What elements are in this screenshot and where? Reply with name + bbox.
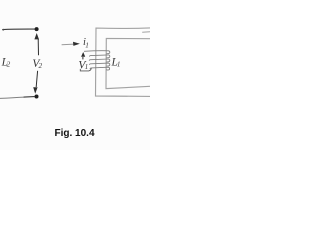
node (port-2 bottom terminal dot) — [35, 95, 39, 99]
wire (port-2 top lead) — [3, 28, 35, 31]
magnetic core inner outline — [106, 38, 150, 88]
svg-text:1: 1 — [85, 41, 89, 49]
svg-text:2: 2 — [39, 62, 43, 70]
voltage arrow V1 (head pointing up at coil top lead) — [81, 52, 85, 59]
inductor L1 coil (turn 2) — [89, 55, 109, 58]
wire (V1 bottom reference lead, bent) — [80, 68, 91, 71]
wire (port-2 bottom lead, left faint half) — [0, 97, 24, 98]
current arrow i1 — [62, 42, 80, 46]
magnetic core outer outline — [96, 28, 151, 97]
svg-text:2: 2 — [7, 60, 11, 68]
core edge stub at right margin — [142, 31, 150, 34]
voltage arrow V2 (lower half, head pointing down at bottom dot) — [33, 71, 37, 94]
wire (port-2 bottom lead) — [24, 96, 35, 99]
svg-text:Fig. 10.4: Fig. 10.4 — [55, 128, 95, 139]
inductor L1 coil (turn 4) — [89, 63, 109, 66]
inductor L1 coil (turn 3) — [89, 59, 110, 62]
voltage arrow V2 (upper half, head pointing up at top dot) — [34, 33, 39, 55]
wire end blob (top-left lead start) — [2, 29, 4, 31]
inductor L1 coil (turn 5, bottom, hooks onto core leg) — [90, 67, 110, 70]
inductor L1 coil (turn 1, top lead extends left) — [84, 51, 110, 54]
svg-text:1: 1 — [85, 63, 89, 71]
svg-text:1: 1 — [117, 61, 121, 69]
node (port-2 top terminal dot) — [35, 27, 39, 31]
